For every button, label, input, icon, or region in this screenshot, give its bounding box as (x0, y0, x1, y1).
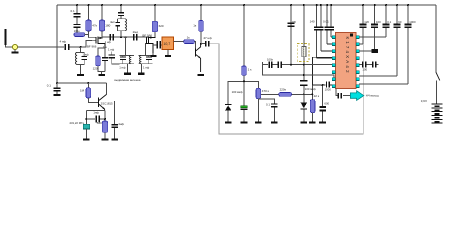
svg-text:НЧ выход: НЧ выход (366, 94, 379, 98)
resistor R6 1k horizontal (184, 36, 196, 49)
capacitor C23 (318, 5, 323, 51)
svg-text:1 нф: 1 нф (82, 52, 89, 56)
svg-text:22 к: 22 к (314, 94, 320, 98)
wire bottom node y81.4 (228, 81, 258, 104)
capacitor C12 series to filter (153, 41, 162, 49)
antenna W1 (4, 29, 12, 47)
ground under tank2 (124, 64, 131, 75)
svg-text:120: 120 (93, 66, 98, 70)
capacitor C3 (73, 17, 80, 34)
svg-text:620: 620 (159, 24, 164, 28)
resistor R11 470k (256, 88, 270, 121)
svg-text:1М: 1М (80, 88, 85, 92)
resistor R7 1k from rail (193, 5, 203, 44)
wire oscillator node y110 (86, 109, 105, 111)
svg-text:10,7: 10,7 (163, 42, 170, 46)
svg-text:820: 820 (97, 121, 102, 125)
svg-text:4мг: 4мг (110, 20, 115, 24)
battery GB1 3.6V multi-cell (421, 99, 443, 123)
ground under Q2 source (151, 55, 157, 57)
svg-text:180: 180 (105, 24, 110, 28)
resistor R10 1k mid (242, 5, 252, 106)
node rail junction dots (76, 4, 409, 6)
ground under R9 (102, 138, 109, 140)
capacitor C19 600 (320, 84, 330, 122)
capacitor C6 on tank2 branch (118, 5, 124, 19)
ground under C14 (54, 94, 61, 96)
wire top supply rail (57, 4, 436, 6)
wire pin5L feed with C26 100n series (263, 57, 334, 67)
resistor R13 22k (310, 85, 319, 122)
resistor R12 220k horizontal (279, 88, 292, 97)
svg-text:BF 966: BF 966 (87, 45, 97, 49)
svg-text:1 н: 1 н (103, 45, 108, 49)
resistor R2 47k (86, 5, 98, 38)
wire gate bus y37 (102, 36, 148, 38)
svg-text:1 нф: 1 нф (108, 47, 115, 51)
filter Z1 10.7MHz (162, 37, 174, 50)
wire pin1L feed (331, 36, 333, 38)
capacitor C20 68 from rail (288, 5, 296, 65)
svg-text:выдвижная антенна: выдвижная антенна (114, 78, 140, 82)
capacitor C28 120 right bank (359, 5, 369, 44)
wire oscillator supply y83 (57, 82, 107, 84)
ground under R13 (309, 122, 316, 124)
svg-text:2SC1815: 2SC1815 (101, 102, 113, 106)
wire filter output (174, 41, 184, 43)
capacitor C15 1nf series (86, 110, 105, 122)
capacitor C30 0.1 (359, 5, 392, 37)
wire pin7L feed y75 (263, 65, 334, 78)
svg-text:47к: 47к (92, 24, 97, 28)
node junctions on bus (120, 36, 122, 38)
ground under C19 (319, 122, 326, 124)
capacitor C8 1nf series (105, 34, 115, 44)
svg-text:220к: 220к (280, 88, 287, 92)
ground under connector (11, 50, 18, 54)
svg-text:100 мкф: 100 мкф (305, 87, 317, 91)
wire x303 branch (303, 5, 305, 80)
switch SA1 (436, 72, 440, 103)
wire pin2L feed (327, 43, 333, 45)
tank L1/C5 1nf (75, 47, 89, 64)
svg-text:2мд: 2мд (133, 30, 139, 34)
ground under tank3 (138, 64, 145, 75)
ground under R11 (255, 122, 262, 124)
capacitor C18 0.1 (266, 102, 278, 121)
arrow LF output (350, 91, 378, 101)
node input connector X1 (12, 44, 17, 49)
capacitor C33 pair on pin5R (359, 62, 378, 72)
svg-text:0.1: 0.1 (71, 9, 76, 13)
resistor R9 820 (97, 110, 108, 138)
wire right rail upper (435, 5, 437, 72)
ground under tank1 (77, 64, 84, 76)
svg-text:431,22 МГц: 431,22 МГц (69, 121, 84, 125)
resistor R5 620 (152, 5, 164, 37)
node junction (243, 80, 245, 82)
resistor R4 120 (93, 48, 105, 72)
ground under C17 (241, 122, 248, 124)
svg-text:100 мкф: 100 мкф (232, 90, 244, 94)
svg-text:100: 100 (376, 20, 381, 24)
svg-text:0.1: 0.1 (266, 102, 270, 106)
resonator ZQ2 black (359, 49, 378, 53)
resonator box dashed (297, 44, 309, 62)
svg-text:1000: 1000 (409, 20, 416, 24)
IC pins right (356, 36, 359, 88)
svg-text:1нф: 1нф (93, 110, 99, 114)
capacitor C16 4nf (111, 101, 124, 138)
svg-text:140: 140 (310, 20, 315, 24)
capacitor C34 output series (336, 89, 351, 99)
wire pin3L feed (321, 50, 334, 52)
capacitor C21 100mkf (300, 80, 316, 94)
svg-text:60: 60 (398, 20, 402, 24)
svg-text:4 нф: 4 нф (60, 39, 67, 43)
ground under filter (165, 50, 171, 57)
ground under VD2 (301, 122, 308, 124)
transistor Q1 BF966 dual-gate MOSFET (87, 37, 105, 49)
diode VD2 (301, 93, 307, 121)
capacitor C17 100mkf electrolytic green (232, 90, 248, 121)
svg-text:1000: 1000 (325, 88, 332, 92)
tank L3/C10 1nf (119, 37, 134, 69)
IC U1 K174XA42 (336, 33, 357, 89)
capacitor C4 1n (102, 45, 108, 72)
wire pin8L feed with C27 1000 series (312, 82, 335, 92)
node Q3 collector junction (200, 43, 202, 45)
ground under C18 (271, 122, 278, 124)
ground under C16 (111, 138, 118, 140)
capacitor C2 0.1 decoupling (71, 5, 81, 17)
tank L2/C7 4mg (110, 19, 127, 37)
svg-text:0.01: 0.01 (323, 20, 329, 24)
capacitor C31 60 (359, 5, 402, 76)
transistor Q4 2SC1815 NPN (98, 83, 113, 110)
svg-text:600: 600 (324, 102, 329, 106)
wire input (18, 46, 64, 48)
svg-text:1 нф: 1 нф (143, 65, 150, 69)
svg-text:3,6V: 3,6V (421, 99, 427, 103)
ground under R4/C4 (98, 72, 105, 76)
svg-text:47 нф: 47 нф (203, 36, 212, 40)
node junction tank1 (80, 46, 82, 48)
ground under crystal (83, 138, 90, 140)
transistor Q3 NPN (195, 44, 201, 72)
svg-text:120: 120 (364, 20, 369, 24)
resistor R1 horizontal (74, 29, 89, 36)
ground under Q3 emitter (197, 74, 204, 76)
resistor R8 1M (80, 82, 98, 102)
svg-text:0.1: 0.1 (387, 20, 391, 24)
svg-text:BF 966: BF 966 (142, 34, 152, 38)
capacitor C22 140 (310, 5, 320, 58)
transistor Q2 BF966 dual-gate MOSFET (142, 34, 155, 53)
diode VD1 (225, 104, 231, 122)
capacitor C1 4nf input (60, 39, 70, 50)
wire left rail (56, 5, 58, 83)
svg-text:4нф: 4нф (118, 122, 124, 126)
resistor R3 180 (99, 5, 110, 37)
capacitor C13 47nf series (201, 36, 212, 47)
capacitor C32 1000 (359, 5, 416, 84)
wire y94.3 (261, 93, 312, 95)
svg-text:1 нф: 1 нф (105, 40, 112, 44)
capacitor C14 0.1 on left rail bottom (47, 82, 61, 94)
svg-text:1 нф: 1 нф (119, 65, 126, 69)
svg-text:470 к: 470 к (262, 89, 270, 93)
crystal ZQ1 (69, 110, 89, 138)
capacitor C35 shunt 1nf (108, 47, 120, 63)
wire pin4L feed (312, 57, 333, 85)
capacitor C9 2nf series (133, 30, 139, 40)
capacitor C25 (329, 5, 334, 37)
svg-text:68: 68 (292, 20, 296, 24)
svg-text:К174ХА42: К174ХА42 (345, 37, 350, 75)
tank L4/C11 1nf (139, 43, 153, 69)
capacitor C29 100 (371, 5, 381, 49)
svg-text:100: 100 (362, 67, 367, 71)
capacitor C24 0.01 (323, 5, 330, 44)
IC pins left (332, 36, 335, 88)
svg-text:0.1: 0.1 (47, 83, 52, 87)
wire input to gate (69, 41, 91, 47)
svg-text:100n: 100n (267, 57, 274, 61)
svg-text:1 к: 1 к (248, 67, 253, 71)
wire feedback long route (210, 44, 364, 134)
ground under VD1 (225, 122, 232, 124)
